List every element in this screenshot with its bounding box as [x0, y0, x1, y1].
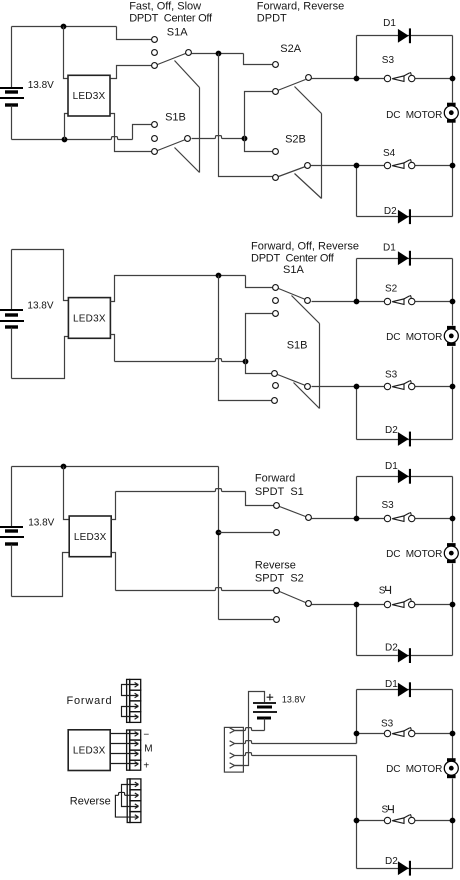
svg-text:−: −	[143, 730, 149, 741]
circuit 4 bridge: bottom wire	[357, 868, 453, 870]
circuit 3 bridge: left rail lower	[356, 605, 358, 656]
diode D1 (circuit 2)	[398, 251, 411, 266]
wire: LED3X bottom-right pin to node B2 with hop	[111, 335, 115, 362]
motor DC motor (circuit 2)	[444, 326, 458, 346]
circuit 4 bridge: left rail upper	[356, 690, 358, 744]
junction at bottom rail / LED3X pin	[62, 137, 68, 143]
junction at top rail / LED3X feed	[61, 24, 67, 30]
circuit 3 wire: lower switch row	[357, 604, 388, 606]
circuit 1 wire: lower switch row	[357, 165, 388, 167]
wire: LED3X bottom-right pin to S1B bottom contact	[111, 114, 152, 152]
switch S4 (circuit 4) symbol	[384, 814, 415, 824]
wire: S2A pole to bridge upper row	[312, 78, 357, 80]
battery B3 positive wire (top rail)	[12, 466, 219, 468]
battery B1 lead top	[11, 27, 13, 88]
svg-text:13.8V: 13.8V	[282, 694, 306, 704]
circuit 4 wire: upper switch row	[357, 733, 388, 735]
svg-text:M: M	[144, 744, 152, 755]
battery B3 lead top	[11, 467, 13, 527]
circuit 4 bridge: top wire	[357, 689, 453, 691]
wire: S1B pole to bridge lower row	[312, 386, 357, 388]
connector: reverse jumper block	[127, 779, 141, 823]
circuit 2 bridge: left rail upper	[356, 259, 358, 302]
svg-text:D2: D2	[385, 425, 398, 436]
motor DC motor (circuit 4)	[444, 758, 458, 778]
svg-text:S1A: S1A	[167, 26, 188, 38]
wire: bottom rail up to S1B top contact	[133, 125, 152, 140]
wire: LED3X bottom-left pin down to bottom rail	[65, 114, 69, 140]
module LED3X (circuit 4) box	[68, 730, 110, 771]
circuit 3 wire: upper switch row	[357, 518, 388, 520]
connector: forward jumper block	[127, 679, 141, 722]
circuit 2 wire: upper switch row	[357, 301, 388, 303]
circuit 4 bridge: right rail lower	[452, 779, 454, 869]
connector: motor terminal block at LED3X	[127, 730, 141, 770]
svg-text:S3: S3	[381, 718, 394, 729]
wire: S1A pole to junction	[192, 53, 244, 55]
circuit 4 bridge: left rail lower	[356, 756, 358, 869]
module LED3X (circuit 1) box	[68, 75, 110, 116]
svg-text:DC MOTOR: DC MOTOR	[386, 110, 442, 121]
diode D2 (circuit 4)	[398, 861, 411, 876]
svg-text:D2: D2	[385, 643, 398, 654]
circuit 3 bridge: right rail lower	[452, 564, 454, 656]
circuit 4 junction dots on rails	[354, 731, 360, 737]
svg-text:D2: D2	[385, 856, 398, 867]
reverse jumper wire 1-3	[122, 782, 139, 808]
module LED3X (circuit 3) box	[69, 516, 111, 557]
wire: S2B pole to bridge lower row	[311, 165, 357, 167]
junction S1B pole node	[242, 136, 248, 142]
svg-text:LED3X: LED3X	[74, 532, 107, 543]
wire: common feed to S2 bottom contact	[219, 619, 274, 621]
circuit 1 bridge: right rail upper	[452, 36, 454, 103]
svg-text:SPDT S1: SPDT S1	[255, 486, 304, 498]
svg-text:DC MOTOR: DC MOTOR	[386, 764, 442, 775]
svg-text:S1B: S1B	[287, 340, 308, 352]
reverse jumper wire 2-4 with hop	[115, 792, 138, 819]
wire: crimp terminal 2 to bridge left rail with hop	[244, 741, 357, 744]
svg-text:Forward: Forward	[67, 695, 113, 707]
svg-text:S2A: S2A	[280, 43, 301, 55]
switch S3 (circuit 3) symbol	[384, 512, 415, 522]
LED3X output wires to terminal block	[111, 732, 139, 767]
svg-text:S2: S2	[385, 284, 398, 295]
wire: battery B4 negative to terminal 1 with hop	[264, 719, 266, 731]
wire: top rail drop to S1A top contact	[117, 27, 152, 40]
svg-text:D1: D1	[383, 18, 396, 29]
circuit 1 bridge: left rail lower	[356, 166, 358, 217]
diode D1 (circuit 3)	[398, 469, 411, 484]
junction top rail / LED3X feed (circuit 3)	[61, 464, 67, 470]
battery B3 lead bottom	[11, 545, 13, 597]
diode D1 (circuit 1)	[398, 28, 411, 43]
circuit 2 junction dots on rails	[354, 299, 360, 305]
circuit 2 bridge: top wire	[357, 258, 453, 260]
svg-text:+: +	[143, 761, 149, 772]
wire: top rail down the common feed	[218, 467, 220, 620]
svg-text:S3: S3	[382, 55, 395, 66]
battery B2 lead top	[11, 250, 13, 310]
svg-text:S3: S3	[382, 500, 395, 511]
switch S4 (circuit 3) symbol	[384, 598, 415, 608]
switch S3 (circuit 1) symbol	[384, 72, 415, 82]
diode D1 (circuit 4)	[398, 682, 411, 697]
wire: battery B4 positive loop to terminal 4	[235, 692, 265, 766]
svg-text:DC MOTOR: DC MOTOR	[386, 549, 442, 560]
motor DC motor (circuit 3)	[444, 543, 458, 563]
wire: crimp terminal 3 to lower bridge rail with hop	[244, 753, 357, 756]
diode D2 (circuit 3)	[398, 648, 411, 663]
svg-text:Forward, Reverse: Forward, Reverse	[257, 1, 344, 13]
circuit 4 bridge: right rail upper	[452, 690, 454, 759]
switch S1A (circuit 2) contacts and pole	[273, 285, 311, 317]
wire: S1B pole to junction with hop	[192, 136, 245, 139]
svg-text:LED3X: LED3X	[73, 746, 106, 757]
svg-text:DPDT Center Off: DPDT Center Off	[251, 252, 335, 264]
diode D2 (circuit 1)	[398, 209, 411, 224]
circuit 1 wire: upper switch row	[357, 78, 388, 80]
switch S1 (circuit 3) contacts and pole	[274, 503, 312, 536]
junction common feed / S1 bottom contact	[216, 530, 222, 536]
diode D2 (circuit 2)	[398, 432, 411, 447]
wire: junction down to S2A top contact	[244, 54, 273, 65]
wire: battery B3 negative to LED3X bottom pin	[12, 553, 70, 597]
circuit 3 bridge: left rail upper	[356, 477, 358, 519]
circuit 2 bridge: bottom wire	[357, 439, 453, 441]
svg-text:13.8V: 13.8V	[28, 80, 54, 91]
circuit 1 bridge: top wire	[357, 35, 453, 37]
wire: LED3X top-right pin to node A2	[111, 276, 246, 302]
svg-text:DPDT: DPDT	[257, 12, 287, 24]
switch S4 (circuit 1) symbol	[384, 159, 415, 169]
battery B1 lead bottom	[11, 106, 13, 140]
switch S1B (circuit 2) contacts and pole	[272, 371, 311, 404]
wire: junction to S1 bottom contact	[219, 532, 274, 534]
wire: junction down to LED3X pin (circuit 3)	[64, 467, 70, 520]
wire: circuit 1 bottom rail with hop	[12, 137, 133, 140]
svg-text:Forward, Off, Reverse: Forward, Off, Reverse	[251, 241, 359, 253]
wire: LED3X top-right pin to S1A bottom contact	[111, 66, 152, 79]
connector: battery crimp block	[224, 727, 243, 772]
circuit 4 wire: lower switch row	[357, 820, 388, 822]
svg-text:D1: D1	[385, 679, 398, 690]
wire: LED3X bottom-right to S2 top contact with hop	[112, 553, 116, 591]
switch S3 (circuit 4) symbol	[384, 727, 415, 737]
wire: node A2 down to S1B bottom contact	[219, 276, 273, 401]
wire: battery B2 negative to LED3X bottom pin	[12, 337, 69, 379]
circuit 1 bridge: right rail lower	[452, 123, 454, 217]
forward jumper wire 3-4	[122, 704, 139, 719]
battery B1 positive wire (top rail)	[12, 26, 117, 28]
svg-text:Forward: Forward	[255, 473, 295, 485]
circuit 1 bridge: left rail upper	[356, 36, 358, 79]
switch S3 (circuit 2) symbol	[384, 380, 415, 389]
forward jumper wire 1-2	[122, 683, 139, 698]
wire: LED3X top-right to S1 top contact with hop	[112, 492, 116, 520]
circuit 2 bridge: right rail upper	[452, 259, 454, 326]
svg-text:DC MOTOR: DC MOTOR	[386, 332, 442, 343]
wire: node A2 to S1A top contact	[246, 276, 273, 288]
circuit 3 junction dots on rails	[354, 516, 360, 522]
svg-text:S3: S3	[385, 370, 398, 381]
svg-text:S1B: S1B	[165, 111, 186, 123]
battery B2 positive wire	[12, 250, 69, 301]
svg-text:LED3X: LED3X	[73, 91, 106, 102]
svg-text:DPDT Center Off: DPDT Center Off	[129, 12, 213, 24]
circuit 3 bridge: top wire	[357, 476, 453, 478]
svg-text:Reverse: Reverse	[70, 796, 111, 808]
circuit 3 bridge: right rail upper	[452, 477, 454, 543]
junction S1A pole node	[216, 51, 222, 57]
junction node B2	[243, 359, 249, 365]
switch S1A contacts and pole	[152, 37, 192, 69]
wire: S1A pole to bridge upper row	[312, 301, 357, 303]
switch S1B contacts and pole	[152, 122, 191, 155]
circuit 1 bridge: bottom wire	[357, 216, 453, 218]
svg-text:SPDT S2: SPDT S2	[255, 572, 304, 584]
wire: S1 pole to bridge upper row	[312, 518, 357, 520]
svg-text:S4: S4	[383, 148, 396, 159]
wire: node B2 up to S1A bottom contact	[246, 314, 273, 362]
svg-text:D2: D2	[384, 206, 397, 217]
circuit 1 junction dots on rails	[354, 76, 360, 82]
wire: node B2 down to S1B top contact	[246, 362, 273, 374]
wire: junction up to S2A bottom contact	[245, 92, 273, 139]
svg-text:D1: D1	[385, 461, 398, 472]
switch S2B contacts and pole	[273, 149, 311, 181]
circuit 3 bridge: bottom wire	[357, 655, 453, 657]
circuit 2 bridge: left rail lower	[356, 387, 358, 440]
circuit 2 wire: lower switch row	[357, 386, 388, 388]
svg-text:S: S	[382, 805, 389, 816]
battery B4 plus sign	[267, 694, 274, 701]
motor DC motor (circuit 1)	[444, 103, 458, 123]
switch S2A contacts and pole	[273, 62, 312, 95]
svg-text:S: S	[379, 585, 386, 596]
mechanical link S1A-S1B	[175, 61, 200, 173]
svg-text:LED3X: LED3X	[73, 314, 106, 325]
svg-text:S2B: S2B	[285, 133, 306, 145]
svg-text:13.8V: 13.8V	[28, 518, 54, 529]
module LED3X (circuit 2) box	[68, 298, 110, 339]
svg-text:Reverse: Reverse	[255, 559, 296, 571]
wire: junction down to S2B top contact	[245, 139, 273, 152]
mechanical link S1A-S1B (circuit 2)	[292, 296, 320, 409]
switch S2 (circuit 3) contacts and pole	[274, 588, 312, 623]
battery B1 13.8V symbol	[0, 88, 24, 105]
wire: junction down to LED3X pin	[64, 27, 69, 79]
svg-text:D1: D1	[383, 242, 396, 253]
mechanical link S2A-S2B	[295, 87, 322, 199]
switch S2 (circuit 2) symbol	[384, 295, 415, 304]
circuit 2 bridge: right rail lower	[452, 347, 454, 440]
battery B2 lead bottom	[11, 328, 13, 379]
svg-text:13.8V: 13.8V	[27, 300, 53, 311]
battery B4 13.8V symbol	[253, 703, 277, 718]
svg-text:S1A: S1A	[283, 264, 304, 276]
wire: S1A pole node down to S2B bottom contact	[219, 54, 273, 177]
junction node A2	[216, 273, 222, 279]
battery B3 13.8V symbol	[0, 527, 24, 544]
svg-text:Fast, Off, Slow: Fast, Off, Slow	[129, 1, 201, 13]
battery B2 13.8V symbol	[0, 310, 24, 327]
wire: S2 pole to bridge lower row	[312, 604, 357, 606]
